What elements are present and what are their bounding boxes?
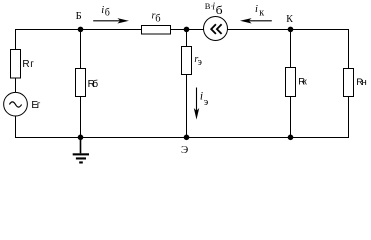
resistor rb [142, 11, 171, 34]
svg-text:б: б [105, 8, 110, 19]
current arrow ib [93, 5, 129, 24]
wire top rail middle segment [170, 29, 204, 31]
svg-text:б: б [155, 14, 160, 25]
node internal junction [184, 27, 190, 33]
svg-text:Rк: Rк [298, 76, 307, 87]
wire Rg to Eg [15, 78, 17, 93]
svg-text:э: э [198, 57, 202, 68]
resistor re [182, 47, 202, 75]
current source B*ib U1 [204, 1, 228, 41]
wire emitter column upper [186, 30, 188, 47]
svg-text:i: i [255, 4, 258, 15]
svg-text:i: i [200, 90, 203, 102]
node E dot [184, 135, 190, 141]
node B label [76, 11, 82, 22]
junction bottom collector [288, 135, 294, 141]
wire base column lower [80, 97, 82, 138]
resistor Rk [286, 68, 308, 97]
node B dot [78, 27, 84, 33]
svg-text:К: К [286, 14, 293, 25]
node K dot [288, 27, 294, 33]
svg-text:э: э [204, 97, 209, 108]
svg-text:к: к [259, 7, 264, 18]
ground [73, 138, 89, 164]
svg-text:Rг: Rг [22, 59, 34, 70]
wire top rail right segment [228, 30, 349, 69]
svg-text:б: б [216, 5, 223, 17]
resistor Rb [76, 69, 99, 97]
wire base column upper [80, 30, 82, 69]
wire collector column lower [290, 97, 292, 138]
source Eg [4, 92, 41, 116]
current arrow ie [194, 88, 209, 120]
node K label [286, 14, 293, 25]
node E label [181, 144, 188, 156]
svg-text:Б: Б [76, 11, 82, 22]
wire top rail left segment [16, 30, 142, 50]
resistor Rg [11, 50, 35, 79]
wire bottom rail [16, 97, 349, 138]
svg-text:Eг: Eг [31, 100, 40, 111]
svg-text:Rб: Rб [88, 78, 99, 90]
resistor Rn [344, 69, 367, 97]
current arrow ik [240, 4, 272, 24]
wire emitter column lower [186, 75, 188, 138]
svg-text:Rн: Rн [356, 77, 367, 88]
wire collector column upper [290, 30, 292, 68]
junction bottom base [78, 135, 84, 141]
svg-text:Э: Э [181, 144, 188, 156]
